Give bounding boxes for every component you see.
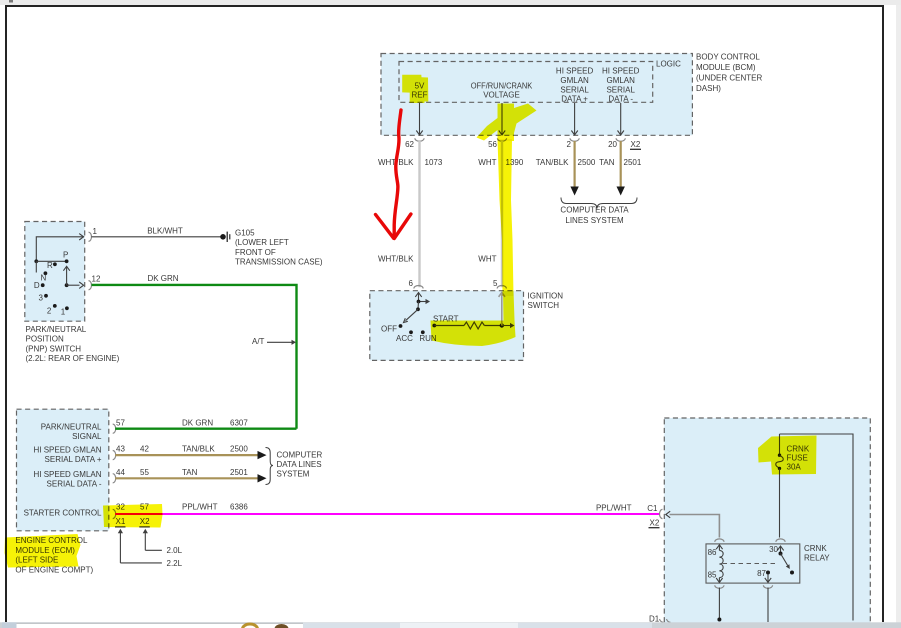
relay midline	[723, 563, 777, 565]
svg-text:6307: 6307	[230, 418, 248, 427]
svg-text:ACC: ACC	[396, 334, 413, 343]
svg-text:(2.2L: REAR OF ENGINE): (2.2L: REAR OF ENGINE)	[26, 354, 120, 363]
svg-text:PARK/NEUTRAL: PARK/NEUTRAL	[26, 325, 87, 334]
relay pin 85 wire down	[718, 588, 720, 621]
BCM output 5V REF	[412, 81, 428, 99]
svg-text:(LOWER LEFT: (LOWER LEFT	[235, 238, 289, 247]
svg-text:OFF/RUN/CRANK: OFF/RUN/CRANK	[471, 81, 533, 90]
svg-text:62: 62	[405, 140, 414, 149]
svg-text:2.0L: 2.0L	[167, 546, 183, 555]
PNP internal wiring	[36, 237, 84, 261]
svg-text:2.2L: 2.2L	[167, 559, 183, 568]
svg-text:P: P	[63, 251, 68, 260]
svg-text:TAN/BLK: TAN/BLK	[182, 445, 215, 454]
svg-text:(PNP) SWITCH: (PNP) SWITCH	[26, 344, 82, 353]
svg-text:TAN/BLK: TAN/BLK	[536, 158, 569, 167]
wire TAN 2501 (BCM side)	[620, 141, 622, 187]
svg-text:GMLAN: GMLAN	[560, 76, 589, 85]
svg-text:1: 1	[93, 227, 98, 236]
relay CRNK RELAY box	[706, 544, 800, 583]
svg-text:N: N	[41, 274, 47, 283]
PNP wiper to P	[65, 283, 69, 287]
svg-text:SIGNAL: SIGNAL	[72, 432, 102, 441]
resistor (ignition START circuit)	[434, 325, 464, 327]
svg-text:HI SPEED: HI SPEED	[556, 67, 594, 76]
PNP pin 1	[89, 232, 92, 241]
svg-text:DATA -: DATA -	[608, 95, 633, 104]
BCM output HI SPEED GMLAN SERIAL DATA +	[556, 67, 594, 104]
fuse CRNK FUSE 30A	[779, 434, 781, 456]
svg-text:R: R	[47, 261, 53, 270]
svg-text:57: 57	[116, 418, 125, 427]
computer data lines brace (ECM)	[266, 448, 274, 485]
svg-text:GMLAN: GMLAN	[606, 76, 635, 85]
svg-text:COMPUTER DATA: COMPUTER DATA	[560, 205, 629, 214]
highlight ENGINE CONTROL MODULE label	[5, 534, 81, 568]
PNP contacts	[65, 259, 69, 263]
svg-text:A/T: A/T	[252, 337, 265, 346]
svg-text:PPL/WHT: PPL/WHT	[596, 504, 632, 513]
svg-text:WHT/BLK: WHT/BLK	[378, 255, 414, 264]
BCM pin 62	[415, 138, 424, 141]
svg-text:5: 5	[493, 279, 498, 288]
svg-text:SERIAL DATA +: SERIAL DATA +	[45, 455, 102, 464]
connector block: BCM box	[381, 54, 692, 136]
svg-text:12: 12	[92, 275, 101, 284]
BCM pin 56	[497, 138, 506, 141]
svg-text:WHT: WHT	[478, 158, 496, 167]
wire PPL/WHT 6386	[115, 513, 659, 515]
wire WHT 1390	[501, 141, 503, 287]
svg-text:DATA LINES: DATA LINES	[277, 460, 322, 469]
svg-text:OFF: OFF	[381, 325, 397, 334]
svg-text:BODY CONTROL: BODY CONTROL	[696, 53, 760, 62]
svg-text:RELAY: RELAY	[804, 554, 830, 563]
underhood fuse block box	[664, 418, 870, 628]
computer data lines brace (top)	[561, 198, 637, 209]
svg-text:TAN: TAN	[182, 468, 198, 477]
svg-text:85: 85	[708, 571, 717, 580]
ECM pin 32/57 (starter control)	[113, 509, 116, 518]
ignition switch box	[370, 291, 524, 361]
BCM pin 2	[570, 138, 579, 141]
relay pin 85	[718, 578, 720, 583]
highlight WHT 1390 wire strip	[498, 139, 514, 296]
BCM output HI SPEED GMLAN SERIAL DATA -	[602, 67, 640, 104]
ECM 2.0L lead (X2)	[145, 549, 162, 551]
svg-text:2: 2	[47, 307, 52, 316]
svg-text:MODULE (BCM): MODULE (BCM)	[696, 63, 756, 72]
svg-text:30: 30	[769, 545, 778, 554]
svg-text:44: 44	[116, 468, 125, 477]
svg-text:6386: 6386	[230, 503, 248, 512]
svg-text:D1: D1	[649, 615, 660, 624]
svg-text:X2: X2	[631, 140, 641, 149]
ignition switch contacts OFF/ACC/RUN/START	[399, 324, 403, 328]
label PARK/NEUTRAL POSITION (PNP) SWITCH	[26, 325, 120, 363]
svg-text:2500: 2500	[230, 445, 248, 454]
svg-text:43: 43	[116, 445, 125, 454]
highlight 5V REF	[402, 75, 428, 103]
svg-text:HI SPEED: HI SPEED	[602, 67, 640, 76]
wire TAN/BLK 2500 (ECM side)	[115, 454, 258, 456]
svg-text:SERIAL: SERIAL	[606, 85, 635, 94]
wire TAN/BLK 2500 (BCM side)	[573, 141, 575, 187]
svg-text:2501: 2501	[624, 158, 642, 167]
svg-text:PPL/WHT: PPL/WHT	[182, 503, 218, 512]
ECM box	[17, 409, 109, 531]
highlight START wire (ignition)	[431, 291, 516, 346]
ignition pin 6	[414, 286, 423, 289]
svg-text:1: 1	[61, 308, 66, 317]
svg-text:PARK/NEUTRAL: PARK/NEUTRAL	[41, 423, 102, 432]
wire C1 to relay coil	[666, 511, 670, 518]
svg-text:42: 42	[140, 445, 149, 454]
relay pin 30 and switch blade	[776, 539, 785, 542]
BCM logic box	[399, 62, 653, 103]
svg-text:87: 87	[757, 569, 766, 578]
highlight STARTER CONTROL pins	[103, 504, 163, 528]
svg-text:TRANSMISSION CASE): TRANSMISSION CASE)	[235, 258, 323, 267]
relay pin 87 wire down	[767, 588, 769, 623]
relay pin 87	[766, 571, 770, 575]
svg-text:CRNK: CRNK	[804, 544, 827, 553]
highlight OFF/RUN/CRANK wire (BCM exit blob)	[477, 104, 537, 142]
BCM output OFF/RUN/CRANK VOLTAGE	[471, 81, 533, 99]
svg-text:LINES SYSTEM: LINES SYSTEM	[565, 216, 624, 225]
wire START node to pin 5	[500, 323, 504, 327]
svg-text:2: 2	[567, 140, 572, 149]
ignition pin 5	[497, 286, 506, 289]
svg-text:2500: 2500	[578, 158, 596, 167]
svg-text:SERIAL DATA -: SERIAL DATA -	[47, 480, 102, 489]
annotation red arrow	[376, 110, 411, 239]
svg-text:POSITION: POSITION	[26, 335, 64, 344]
svg-text:COMPUTER: COMPUTER	[277, 451, 323, 460]
svg-text:2501: 2501	[230, 468, 248, 477]
connector C1 / X2	[660, 509, 663, 518]
svg-text:VOLTAGE: VOLTAGE	[483, 91, 520, 100]
svg-text:DASH): DASH)	[696, 84, 721, 93]
wire TAN 2501 (ECM side)	[115, 477, 258, 479]
svg-text:86: 86	[708, 548, 717, 557]
svg-text:WHT: WHT	[478, 255, 496, 264]
svg-text:6: 6	[409, 279, 414, 288]
svg-text:G105: G105	[235, 228, 255, 237]
svg-text:FRONT OF: FRONT OF	[235, 248, 276, 257]
svg-text:SYSTEM: SYSTEM	[277, 470, 310, 479]
battery feed rail	[780, 434, 854, 621]
wire DK GRN 6307	[115, 428, 296, 430]
relay pin 86	[715, 539, 724, 542]
svg-text:DK GRN: DK GRN	[182, 418, 213, 427]
ECM pin 44/55	[113, 474, 116, 483]
svg-text:LOGIC: LOGIC	[656, 60, 681, 69]
wire WHT/BLK 1073	[418, 141, 420, 287]
svg-text:D: D	[34, 281, 40, 290]
svg-text:SWITCH: SWITCH	[528, 301, 560, 310]
BCM pin 20 connector X2	[616, 138, 625, 141]
ECM 2.2L lead (X1)	[120, 562, 161, 564]
svg-text:DATA +: DATA +	[561, 95, 588, 104]
ground G105	[220, 234, 226, 240]
PNP pin 12	[67, 284, 80, 286]
svg-text:20: 20	[608, 140, 617, 149]
svg-text:X2: X2	[650, 519, 660, 528]
wire BLK/WHT	[92, 236, 222, 238]
svg-text:TAN: TAN	[599, 158, 615, 167]
bottom bar	[0, 622, 901, 628]
label ENGINE CONTROL MODULE (ECM)	[15, 536, 93, 574]
ECM connectors X1 X2	[116, 517, 151, 526]
relay coil 86-85	[719, 550, 723, 577]
svg-text:1073: 1073	[425, 158, 443, 167]
ignition switch wiper and common	[418, 293, 420, 302]
svg-text:BLK/WHT: BLK/WHT	[147, 227, 183, 236]
svg-text:STARTER CONTROL: STARTER CONTROL	[24, 509, 102, 518]
svg-text:HI SPEED GMLAN: HI SPEED GMLAN	[33, 446, 101, 455]
svg-text:55: 55	[140, 468, 149, 477]
svg-text:3: 3	[39, 294, 44, 303]
svg-text:SERIAL: SERIAL	[560, 85, 589, 94]
highlight CRNK FUSE	[758, 436, 817, 475]
svg-text:C1: C1	[647, 504, 658, 513]
svg-text:HI SPEED GMLAN: HI SPEED GMLAN	[33, 470, 101, 479]
ECM pin 43/42	[113, 451, 116, 460]
svg-text:(UNDER CENTER: (UNDER CENTER	[696, 74, 762, 83]
svg-text:IGNITION: IGNITION	[528, 292, 564, 301]
ECM pin 57 (park/neutral signal)	[113, 424, 116, 433]
label BODY CONTROL MODULE (BCM)	[696, 53, 762, 94]
svg-text:DK GRN: DK GRN	[147, 274, 178, 283]
PNP switch box	[25, 222, 85, 322]
wire DK GRN (pin 12 to ECM)	[92, 285, 297, 429]
svg-text:56: 56	[488, 140, 497, 149]
label IGNITION SWITCH	[528, 292, 564, 311]
